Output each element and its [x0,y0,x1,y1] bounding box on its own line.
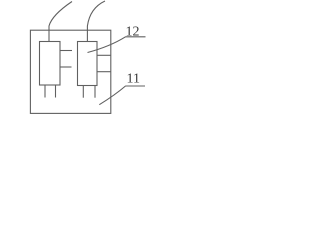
svg-text:12: 12 [126,25,140,40]
enclosure case 11 [30,30,110,113]
stub tick upper between components [60,50,72,52]
component right (crystal unit) 12 [78,42,98,86]
stub tick lower between components [60,66,72,68]
leg 1 of right component [82,86,84,98]
leader line to label 11 [99,86,125,105]
lead wire right (curved, exits case top) [87,1,105,42]
lead wire left (curved, exits case top) [49,2,72,42]
leg 2 of left component [55,85,57,98]
underline of label 11 [125,85,145,87]
tick lower from right component to case wall [97,71,111,73]
underline of label 12 [125,36,145,38]
component left (crystal unit) [40,42,61,86]
tick upper from right component to case wall [97,54,111,56]
leg 2 of right component [94,86,96,98]
svg-text:11: 11 [127,72,140,87]
leader line to label 12 [88,37,126,53]
leg 1 of left component [44,85,46,98]
